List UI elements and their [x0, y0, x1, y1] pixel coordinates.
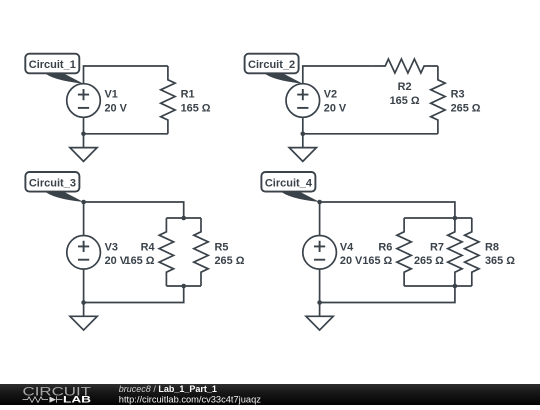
resistor R1: [161, 66, 175, 134]
label R4 value: [125, 241, 155, 267]
svg-text:Circuit_2: Circuit_2: [248, 59, 295, 71]
voltage source V4: [303, 236, 337, 270]
voltage source V1: [67, 84, 101, 118]
ground GND1: [70, 148, 97, 162]
resistor R2: [371, 59, 438, 73]
svg-text:165 Ω: 165 Ω: [125, 255, 155, 267]
junction node V4+ top: [317, 200, 322, 205]
svg-text:Circuit_1: Circuit_1: [29, 59, 76, 71]
net flag Circuit_3: [25, 172, 83, 202]
wire top node to parallel bar: [84, 202, 184, 218]
svg-text:V2: V2: [324, 89, 337, 101]
net flag Circuit_2: [245, 54, 303, 84]
wire bottom bar R6-R7-R8: [404, 285, 472, 287]
resistor R8: [465, 218, 479, 286]
label R5 value: [215, 241, 245, 267]
resistor R4: [159, 218, 173, 286]
wire R1 bottom to V1 bottom: [84, 133, 168, 135]
junction node V1- / ground: [81, 132, 86, 137]
svg-text:R3: R3: [451, 89, 465, 101]
resistor R5: [194, 218, 208, 286]
svg-text:R6: R6: [378, 241, 392, 253]
wire V2 top to R2 left: [303, 66, 372, 84]
label R6 value: [362, 241, 392, 267]
svg-text:Circuit_3: Circuit_3: [29, 177, 76, 189]
junction node V3+ top: [81, 200, 86, 205]
svg-text:R2: R2: [398, 81, 412, 93]
svg-text:20 V: 20 V: [324, 103, 347, 115]
ground GND4: [306, 316, 333, 330]
junction bottom bar at R7: [453, 284, 458, 289]
resistor R6: [397, 218, 411, 286]
wire V3 bottom to ground: [83, 269, 85, 316]
label R3 value: [451, 89, 481, 115]
voltage source V2: [286, 84, 320, 118]
voltage source V3: [67, 236, 101, 270]
wire top node to parallel bar: [320, 202, 455, 218]
svg-text:V3: V3: [105, 241, 118, 253]
svg-text:R7: R7: [430, 241, 444, 253]
svg-text:20 V: 20 V: [340, 255, 363, 267]
wire bottom bar to V4 bottom: [320, 286, 455, 303]
wire bottom bar R4-R5: [166, 285, 201, 287]
ground GND2: [289, 148, 316, 162]
wire V1 bottom to ground: [83, 117, 85, 147]
resistor R7: [448, 218, 462, 286]
wire V1 top to R1 top: [84, 66, 168, 84]
junction bottom bar: [181, 284, 186, 289]
label R7 value: [414, 241, 444, 267]
svg-text:V4: V4: [340, 241, 353, 253]
label V2 value: [324, 89, 347, 115]
ground GND3: [70, 316, 97, 330]
junction top bar at R7: [453, 216, 458, 221]
svg-text:Circuit_4: Circuit_4: [265, 177, 313, 189]
CircuitLab logo wire-resistor-diode glyph: [23, 396, 63, 402]
junction top bar: [181, 216, 186, 221]
wire node to V4 top: [319, 202, 321, 236]
wire top bar R6-R7-R8: [404, 217, 472, 219]
resistor R3: [431, 66, 445, 134]
svg-text:365 Ω: 365 Ω: [485, 255, 515, 267]
svg-text:165 Ω: 165 Ω: [181, 103, 211, 115]
wire bottom bar to V3 bottom: [84, 286, 184, 303]
svg-text:brucec8 / Lab_1_Part_1: brucec8 / Lab_1_Part_1: [119, 384, 217, 394]
junction node V2- / ground: [301, 132, 306, 137]
svg-text:R8: R8: [485, 241, 499, 253]
svg-text:R4: R4: [141, 241, 155, 253]
net flag Circuit_4: [261, 172, 319, 202]
label V3 value: [105, 241, 128, 267]
wire node to V3 top: [83, 202, 85, 236]
svg-text:265 Ω: 265 Ω: [414, 255, 444, 267]
svg-text:http://circuitlab.com/cv33c4t7: http://circuitlab.com/cv33c4t7juaqz: [119, 394, 261, 404]
wire V2 bottom to ground: [302, 117, 304, 147]
label R2 value: [390, 81, 420, 107]
wire V4 bottom to ground: [319, 269, 321, 316]
wire R3 bottom to V2 bottom: [303, 133, 438, 135]
svg-text:20 V: 20 V: [105, 103, 128, 115]
svg-text:165 Ω: 165 Ω: [362, 255, 392, 267]
junction node V4- / ground: [317, 300, 322, 305]
label V4 value: [340, 241, 363, 267]
svg-text:165 Ω: 165 Ω: [390, 95, 420, 107]
junction node V3- / ground: [81, 300, 86, 305]
label R1 value: [181, 89, 211, 115]
svg-text:265 Ω: 265 Ω: [451, 103, 481, 115]
svg-text:V1: V1: [105, 89, 118, 101]
svg-text:R5: R5: [215, 241, 229, 253]
net flag Circuit_1: [25, 54, 83, 84]
wire top bar R4-R5: [166, 217, 201, 219]
label R8 value: [485, 241, 515, 267]
svg-text:LAB: LAB: [63, 394, 92, 404]
svg-text:R1: R1: [181, 89, 195, 101]
svg-text:265 Ω: 265 Ω: [215, 255, 245, 267]
label V1 value: [105, 89, 128, 115]
